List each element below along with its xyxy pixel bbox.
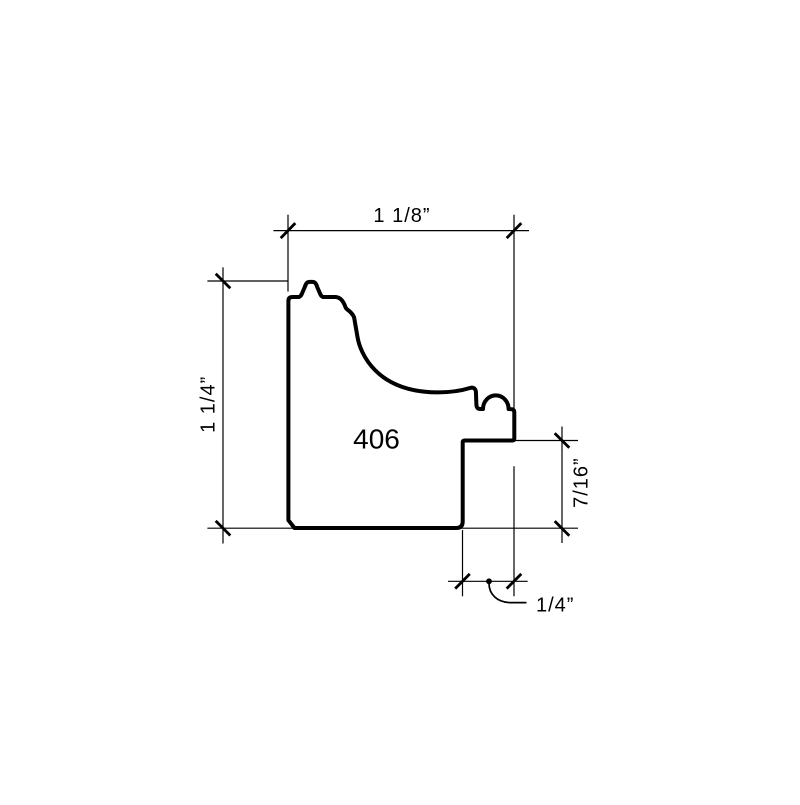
right dimension 7/16: tick top xyxy=(555,433,570,448)
svg-text:1/4”: 1/4” xyxy=(536,595,574,617)
left dimension 1 1/4: tick top xyxy=(216,274,231,289)
bottom dimension 1/4: extension line left xyxy=(462,530,464,596)
right dimension 7/16: dimension line xyxy=(561,427,563,544)
top dimension 1 1/8: tick right xyxy=(507,223,522,238)
moulding profile 406 outline xyxy=(288,282,514,528)
top dimension 1 1/8: tick left xyxy=(281,223,296,238)
top dimension 1 1/8: extension line right xyxy=(513,215,515,411)
bottom dimension 1/4: leader dot xyxy=(486,578,492,584)
bottom dimension 1/4: tick right xyxy=(507,574,522,589)
top dimension 1 1/8: extension line left xyxy=(287,215,289,292)
shared bottom extension line xyxy=(207,527,578,529)
bottom dimension 1/4: dimension line xyxy=(448,580,528,582)
bottom dimension 1/4: tick left xyxy=(455,574,470,589)
bottom dimension 1/4: extension line right xyxy=(513,466,515,596)
right dimension 7/16: tick bottom xyxy=(555,521,570,536)
top dimension 1 1/8: dimension line xyxy=(273,230,529,232)
svg-text:406: 406 xyxy=(353,424,400,455)
bottom dimension 1/4: leader curve xyxy=(489,584,527,603)
svg-text:1 1/8”: 1 1/8” xyxy=(373,205,430,227)
left dimension 1 1/4: tick bottom xyxy=(216,521,231,536)
left dimension 1 1/4: dimension line xyxy=(222,267,224,543)
left dimension 1 1/4: extension line top xyxy=(207,280,288,282)
svg-text:1 1/4”: 1 1/4” xyxy=(198,376,220,433)
svg-text:7/16”: 7/16” xyxy=(571,457,593,508)
right dimension 7/16: extension line top xyxy=(516,440,579,442)
